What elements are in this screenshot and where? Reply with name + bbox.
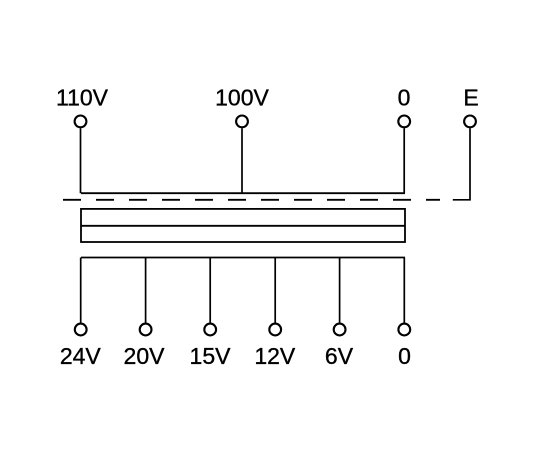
svg-text:6V: 6V xyxy=(325,343,354,369)
svg-text:24V: 24V xyxy=(60,343,102,369)
svg-text:0: 0 xyxy=(398,85,411,111)
svg-text:E: E xyxy=(463,85,478,111)
svg-text:110V: 110V xyxy=(56,85,109,111)
svg-text:0: 0 xyxy=(398,343,411,369)
svg-text:15V: 15V xyxy=(190,343,232,369)
svg-text:12V: 12V xyxy=(254,343,296,369)
svg-text:20V: 20V xyxy=(124,343,166,369)
svg-text:100V: 100V xyxy=(215,85,269,111)
